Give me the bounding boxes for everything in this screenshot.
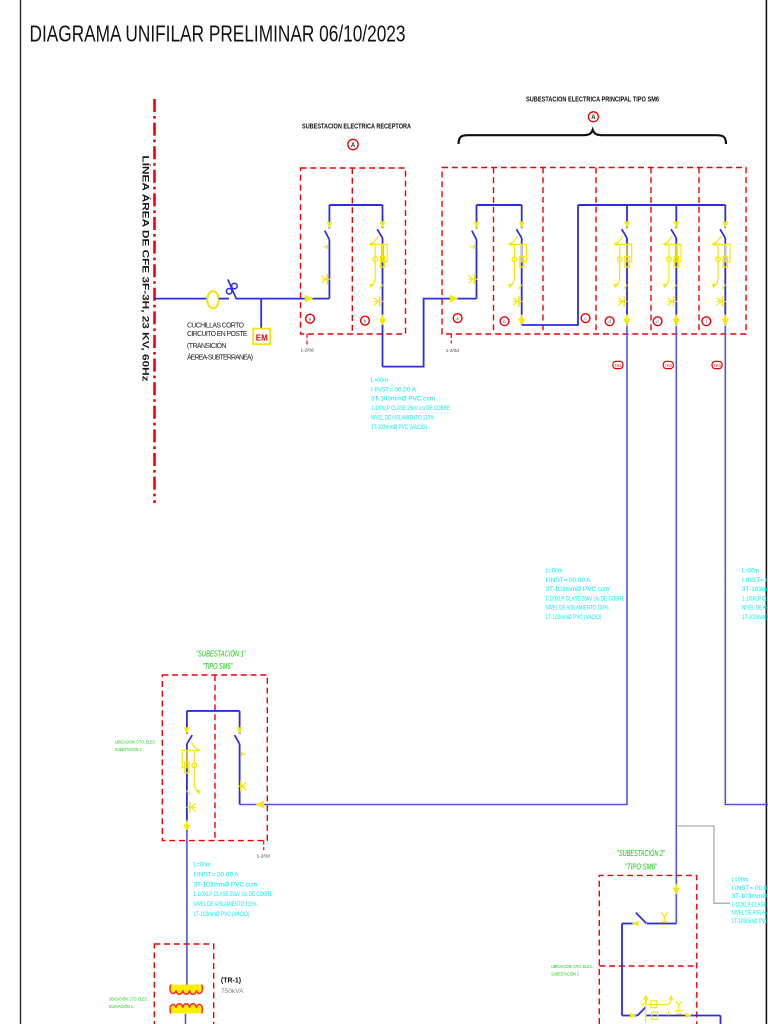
svg-text:I INST= 00.00 A: I INST= 00.00 A xyxy=(546,578,591,584)
feeder from bay e to sub2 xyxy=(675,326,677,924)
cable note 5 (sub2 incoming, clipped) xyxy=(732,878,768,926)
svg-text:ELEVACIÓN 1.: ELEVACIÓN 1. xyxy=(109,1003,134,1010)
svg-text:3T-103mmØ PVC ccm: 3T-103mmØ PVC ccm xyxy=(371,397,435,403)
svg-text:1-1/0XLP CLASE 25kV c/u DE COB: 1-1/0XLP CLASE 25kV c/u DE COBRE xyxy=(546,596,625,602)
svg-text:I INST= 00.00 A: I INST= 00.00 A xyxy=(742,578,768,584)
svg-text:I INST= 00.00 A: I INST= 00.00 A xyxy=(732,886,768,892)
svg-text:A: A xyxy=(591,115,596,121)
cable note 3 (bay f feeder, clipped) xyxy=(742,569,768,622)
svg-text:SUBESTACION ELECTRICA RECEPTOR: SUBESTACION ELECTRICA RECEPTORA xyxy=(302,123,411,130)
svg-text:d: d xyxy=(608,319,611,324)
svg-text:EM: EM xyxy=(256,334,268,343)
receptor bay a disconnector xyxy=(322,205,333,299)
svg-text:"TIPO SM6": "TIPO SM6" xyxy=(625,863,658,872)
revision circle A xyxy=(588,112,598,122)
wire: cutout to receptor bay a xyxy=(236,298,330,300)
label circle c xyxy=(581,314,590,323)
svg-text:NIVEL DE AISLAMIENTO 133%: NIVEL DE AISLAMIENTO 133% xyxy=(546,606,609,612)
arrow into main xyxy=(450,295,459,303)
sub1 bus xyxy=(187,710,240,712)
label circle a xyxy=(453,314,462,323)
svg-text:NIVEL DE AISLAMIENTO 133%: NIVEL DE AISLAMIENTO 133% xyxy=(742,606,768,612)
sub1 enclosure xyxy=(162,675,267,841)
svg-text:a: a xyxy=(309,316,312,321)
receptor bay b breaker xyxy=(369,205,388,326)
label circle f xyxy=(702,317,711,326)
sub1 incoming bay switch xyxy=(235,711,247,805)
note: cuchillas corto circuito xyxy=(187,322,253,361)
main bus 1 xyxy=(477,204,522,206)
svg-text:TR1: TR1 xyxy=(614,363,622,368)
cable note 2 (bay d feeder) xyxy=(546,569,625,622)
transformer tag TR2 xyxy=(663,361,673,368)
svg-text:3T-103mmØ PVC ccm: 3T-103mmØ PVC ccm xyxy=(742,587,768,593)
CFE aerial line (red dash-dot) xyxy=(153,99,156,503)
svg-text:f: f xyxy=(706,319,708,324)
svg-text:e: e xyxy=(656,319,659,324)
main bay b to bay c tie xyxy=(522,205,578,325)
revision circle A xyxy=(348,139,358,149)
transformer TR-1 primary winding xyxy=(170,985,202,995)
main bay d breaker xyxy=(613,205,632,326)
svg-text:1-1/0XLP CLASE 25kV c/u DE COB: 1-1/0XLP CLASE 25kV c/u DE COBRE xyxy=(194,892,273,898)
transformer tag TR1 xyxy=(613,361,623,368)
brace over main substation xyxy=(459,130,726,144)
wire: EM tap xyxy=(260,299,262,329)
svg-text:1T-103mmØ PVC (VACIO): 1T-103mmØ PVC (VACIO) xyxy=(194,912,250,918)
main bay a disconnector xyxy=(469,205,480,299)
transformer TR-1 enclosure xyxy=(154,944,213,1024)
CT ring (yellow ellipse) xyxy=(207,291,218,308)
svg-text:CIRCUITO EN POSTE: CIRCUITO EN POSTE xyxy=(187,331,248,338)
svg-text:L=00m: L=00m xyxy=(546,569,563,575)
feeder from bay f heading east xyxy=(725,326,768,805)
svg-text:SUBESTACION ELECTRICA PRINCIPA: SUBESTACION ELECTRICA PRINCIPAL TIPO SM6 xyxy=(526,96,659,103)
label circle d xyxy=(605,317,614,326)
svg-text:1T-103mmØ PVC (VACIO): 1T-103mmØ PVC (VACIO) xyxy=(371,425,427,431)
svg-text:SUBESTACIÓN 2: SUBESTACIÓN 2 xyxy=(551,970,579,977)
svg-text:1T-103mmØ PVC (VACIO): 1T-103mmØ PVC (VACIO) xyxy=(732,919,768,925)
svg-text:1-2/0d: 1-2/0d xyxy=(257,854,270,859)
svg-text:"SUBESTACIÓN 2": "SUBESTACIÓN 2" xyxy=(617,849,666,858)
svg-text:3T-103mmØ PVC ccm: 3T-103mmØ PVC ccm xyxy=(194,882,258,888)
arrow on sub2 feeder xyxy=(673,884,680,895)
svg-text:"SUBESTACIÓN 1": "SUBESTACIÓN 1" xyxy=(196,650,247,659)
svg-text:I INST= 00.00 A: I INST= 00.00 A xyxy=(371,387,416,393)
svg-text:A: A xyxy=(351,143,356,149)
cable tick 1-2/0d xyxy=(301,334,314,353)
wire: CT to cutout xyxy=(219,298,229,300)
receptor bus xyxy=(329,204,382,206)
svg-text:1-1/0XLP CLASE 25kV c/u DE COB: 1-1/0XLP CLASE 25kV c/u DE COBRE xyxy=(742,596,768,602)
sub2 outgoing drop xyxy=(720,1016,722,1024)
sub1 outgoing wire to transformer xyxy=(186,830,188,985)
svg-text:I INST= 00.00 A: I INST= 00.00 A xyxy=(194,872,239,878)
main substation enclosure xyxy=(442,168,746,335)
arrow into receptor xyxy=(305,295,314,303)
svg-text:NIVEL DE AISLAMIENTO 133%: NIVEL DE AISLAMIENTO 133% xyxy=(194,902,257,908)
svg-text:SUBESTACION 1.: SUBESTACION 1. xyxy=(115,747,142,753)
transformer TR-1 secondary winding xyxy=(170,1004,202,1014)
cable note 4 (sub1 outgoing) xyxy=(194,863,273,919)
svg-text:CUCHILLAS CORTO: CUCHILLAS CORTO xyxy=(187,322,245,329)
sub2 outgoing bay (horizontal breaker) xyxy=(622,994,721,1022)
sub2 enclosure xyxy=(599,875,697,1024)
cable tick 1-2/0d sub1 xyxy=(257,841,270,859)
svg-text:LÍNEA ÁREA DE CFE 3F-3H, 23 KV: LÍNEA ÁREA DE CFE 3F-3H, 23 KV, 60Hz xyxy=(139,156,150,382)
label circle b xyxy=(500,317,509,326)
svg-text:TR2: TR2 xyxy=(665,363,673,368)
main bus 2 xyxy=(578,204,725,206)
label circle a xyxy=(306,314,315,323)
svg-text:750kVA: 750kVA xyxy=(221,988,244,995)
svg-text:b: b xyxy=(364,318,367,323)
label circle b xyxy=(361,316,370,325)
main bay b breaker xyxy=(508,205,527,326)
EM meter box xyxy=(253,329,270,345)
sub1 bay breaker (mirrored) xyxy=(182,711,201,832)
wire: CFE tap to CT xyxy=(155,298,208,300)
svg-text:1-1/0XLP CLASE 25kV c/u DE COB: 1-1/0XLP CLASE 25kV c/u DE COBRE xyxy=(371,406,450,412)
svg-text:(TR-1): (TR-1) xyxy=(221,977,241,984)
svg-text:1T-103mmØ PVC (VACIO): 1T-103mmØ PVC (VACIO) xyxy=(742,615,768,621)
leader to cable note 5 xyxy=(678,826,731,903)
note ubicacion sub2 xyxy=(551,963,593,978)
note ubicacion elevacion 1 xyxy=(109,996,148,1010)
main bay e breaker xyxy=(662,205,681,326)
svg-text:TR3: TR3 xyxy=(713,363,721,368)
svg-text:L=00m: L=00m xyxy=(742,569,759,575)
svg-text:1-1/0XLP CLASE 25kV c/u DE COB: 1-1/0XLP CLASE 25kV c/u DE COBRE xyxy=(732,902,768,908)
svg-text:b: b xyxy=(503,319,506,324)
svg-text:c: c xyxy=(584,316,587,321)
svg-text:"TIPO SM6": "TIPO SM6" xyxy=(203,662,234,671)
receptor bay b outgoing wire xyxy=(382,325,384,367)
svg-text:L=00m: L=00m xyxy=(732,878,749,884)
svg-text:ÁEREA-SUBTERRANEA): ÁEREA-SUBTERRANEA) xyxy=(187,352,253,361)
feeder from bay d to sub1 xyxy=(240,326,627,805)
wire below secondary xyxy=(185,1014,187,1024)
label circle e xyxy=(653,317,662,326)
sub2 riser wire xyxy=(621,924,623,1016)
svg-text:NIVEL DE AISLAMIENTO 133%: NIVEL DE AISLAMIENTO 133% xyxy=(371,415,434,421)
cable note 1 (receptor-main) xyxy=(371,378,450,431)
note ubicacion sub1 xyxy=(115,740,156,753)
svg-text:L=00m: L=00m xyxy=(371,378,388,384)
svg-text:1T-103mmØ PVC (VACIO): 1T-103mmØ PVC (VACIO) xyxy=(546,615,602,621)
svg-text:DIAGRAMA UNIFILAR PRELIMINAR 0: DIAGRAMA UNIFILAR PRELIMINAR 06/10/2023 xyxy=(30,20,406,46)
receptor substation enclosure xyxy=(301,168,406,334)
svg-text:(TRANSICIÓN: (TRANSICIÓN xyxy=(187,341,227,350)
svg-text:L=00m: L=00m xyxy=(194,863,211,869)
svg-text:UBICACIÓN: CTO. ELEC.: UBICACIÓN: CTO. ELEC. xyxy=(551,963,593,970)
sub2 incoming switch (horizontal) xyxy=(622,912,676,926)
arrow into sub1 xyxy=(256,801,264,809)
transformer tag TR3 xyxy=(712,361,722,368)
fused cutout (cuchillas) xyxy=(226,279,237,298)
svg-text:UBICACIÓN: CTO. ELEC.: UBICACIÓN: CTO. ELEC. xyxy=(109,996,148,1003)
svg-text:UBICACION: CTO. ELEC.: UBICACION: CTO. ELEC. xyxy=(115,740,156,746)
svg-text:3T-103mmØ PVC ccm: 3T-103mmØ PVC ccm xyxy=(732,894,768,900)
svg-text:1-2/0d: 1-2/0d xyxy=(301,348,314,353)
svg-text:NIVEL DE AISLAMIENTO 133%: NIVEL DE AISLAMIENTO 133% xyxy=(732,911,768,917)
cable tick 1-2/0d main xyxy=(446,334,459,353)
link receptor to main xyxy=(383,299,477,367)
main bay f breaker xyxy=(711,205,730,326)
svg-text:a: a xyxy=(456,316,459,321)
svg-text:3T-103mmØ PVC ccm: 3T-103mmØ PVC ccm xyxy=(546,587,610,593)
svg-text:1-2/0d: 1-2/0d xyxy=(446,348,459,353)
